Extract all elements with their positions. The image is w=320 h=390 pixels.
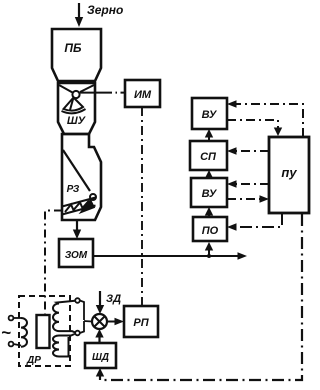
wire ПУ to СП dash-dot <box>227 147 269 155</box>
svg-text:СП: СП <box>200 151 217 163</box>
box ВУ lower <box>191 178 227 207</box>
box СП <box>190 141 227 170</box>
wire ВУ lower to ПУ dash-dot <box>227 195 269 203</box>
box ПО <box>193 217 227 241</box>
svg-text:Зерно: Зерно <box>87 3 123 17</box>
transformer input terminals <box>9 316 21 347</box>
wire transformer to mixer <box>80 301 92 334</box>
wire ПУ to ВУ upper dash-dot <box>227 100 303 137</box>
actuator box ИМ <box>125 80 160 107</box>
box РП <box>124 306 158 337</box>
wire ПУ to ПО dash-dot <box>227 213 282 231</box>
wire ИМ to РП dash-dot <box>141 107 143 306</box>
transformer secondary winding lower <box>53 334 75 357</box>
transformer core <box>37 315 50 348</box>
feeder ШУ screw symbol <box>59 85 94 113</box>
wire СП to ВУ upper arrow <box>205 129 213 141</box>
mixer node <box>92 314 107 329</box>
wire ЗОМ output <box>93 242 247 260</box>
transformer primary winding <box>21 318 27 347</box>
box ШД <box>85 343 116 368</box>
wire ШД to mixer arrow <box>95 329 103 343</box>
svg-text:пу: пу <box>281 165 297 180</box>
grinder РЗ pivot <box>90 194 96 200</box>
dashed box ДР <box>19 296 70 366</box>
transformer output terminals <box>75 298 80 335</box>
svg-text:ШУ: ШУ <box>67 115 87 127</box>
setpoint arrow ЗД to mixer <box>96 291 104 314</box>
grinder РЗ gate flap <box>80 200 95 214</box>
linkage wire РЗ to transformer core dash-dot <box>45 211 62 315</box>
svg-text:ИМ: ИМ <box>134 89 152 101</box>
svg-text:ЗОМ: ЗОМ <box>65 250 88 261</box>
box ЗОМ <box>59 239 93 267</box>
svg-text:ВУ: ВУ <box>202 188 218 200</box>
svg-text:ПБ: ПБ <box>64 41 82 55</box>
wire ВУ upper to ПУ dash-dot <box>227 120 282 136</box>
wire mixer to РП arrow <box>107 318 124 326</box>
grinder РЗ hatched strip <box>62 198 96 215</box>
wire ВУ lower to СП arrow <box>205 170 213 179</box>
linkage wire ШУ to ИМ <box>80 92 125 94</box>
wire ПУ to ВУ lower dash-dot <box>227 180 269 188</box>
wire ПО to ВУ lower arrow <box>205 207 213 217</box>
hopper ПБ <box>52 29 101 81</box>
feeder ШУ body <box>58 83 95 134</box>
box ВУ upper <box>192 98 227 129</box>
svg-text:ШД: ШД <box>92 352 109 363</box>
svg-text:ВУ: ВУ <box>202 109 218 121</box>
wire РЗ to ЗОМ arrow <box>73 221 81 239</box>
grinder РЗ body <box>62 134 101 220</box>
wire ПУ to ШД bottom dash-dot <box>96 214 302 380</box>
svg-text:РЗ: РЗ <box>67 184 80 195</box>
transformer secondary winding upper <box>53 301 75 333</box>
svg-text:ПО: ПО <box>202 225 219 237</box>
grain input arrow <box>75 3 83 27</box>
svg-text:РП: РП <box>133 317 149 329</box>
svg-text:~: ~ <box>1 323 11 342</box>
grinder РЗ diagonal <box>63 150 90 191</box>
svg-text:ДР: ДР <box>26 355 41 366</box>
box ПУ <box>269 137 309 213</box>
svg-text:ЗД: ЗД <box>106 293 121 305</box>
